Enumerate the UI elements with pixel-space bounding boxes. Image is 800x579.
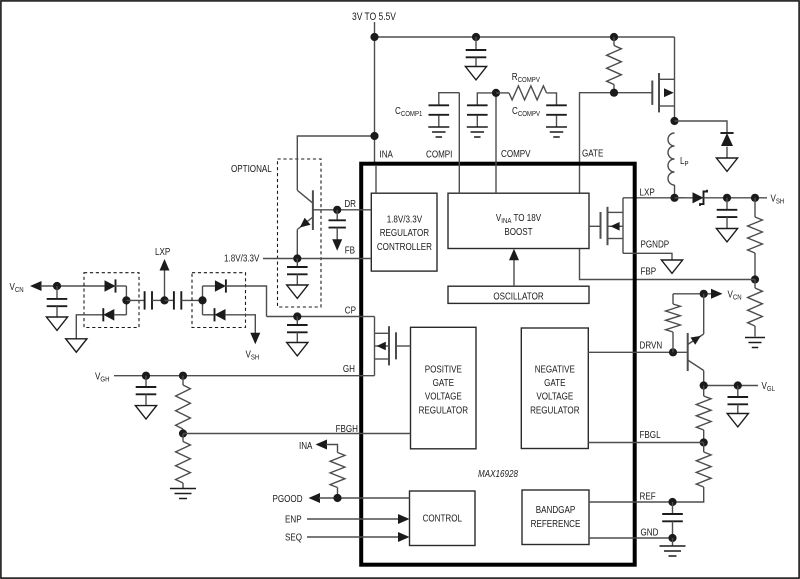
junction rail-INA <box>370 33 378 41</box>
svg-text:REGULATOR: REGULATOR <box>380 227 430 238</box>
wire FBGL line <box>588 442 703 444</box>
ground FB cap <box>287 285 308 298</box>
svg-text:FBGL: FBGL <box>640 429 661 440</box>
ground VSH divider <box>745 337 765 339</box>
wire GH line <box>114 375 375 377</box>
pin DRVN <box>640 339 663 350</box>
wire INA to controller block <box>375 165 377 193</box>
resistor RCOMPV <box>496 92 509 94</box>
svg-text:GATE: GATE <box>433 377 454 388</box>
ground PGNDP <box>661 260 682 273</box>
capacitor REF bypass <box>672 502 674 514</box>
wire FB line <box>263 258 371 260</box>
junction rail-bypass cap <box>472 33 480 41</box>
svg-text:PGNDP: PGNDP <box>641 238 670 249</box>
svg-text:OPTIONAL: OPTIONAL <box>231 163 272 174</box>
pin FBGL <box>640 429 661 440</box>
charge-pump dashed box 1 <box>84 273 139 328</box>
svg-text:MAX16928: MAX16928 <box>478 468 519 479</box>
ground VGH cap <box>135 406 156 419</box>
resistor VGL divider top <box>703 386 705 397</box>
label VCN (right) <box>728 289 742 302</box>
junction VGL-cap <box>734 381 742 389</box>
wire VCN line <box>41 285 105 287</box>
block 1.8V/3.3V regulator controller <box>371 193 437 271</box>
transistor external PMOS <box>651 81 653 105</box>
svg-text:INA: INA <box>380 149 394 160</box>
svg-text:FBGH: FBGH <box>336 423 358 434</box>
wire supply to optional transistor <box>297 136 374 190</box>
wire PGNDP line <box>623 253 672 260</box>
resistor VGH divider bottom <box>182 434 184 442</box>
wire ENP line <box>307 518 400 520</box>
ground CP1 <box>66 339 87 352</box>
junction REF node <box>668 498 676 506</box>
ground VGH divider <box>170 488 196 490</box>
pin DR <box>344 198 356 209</box>
resistor PGOOD pull-up <box>330 453 345 488</box>
capacitor CP reservoir <box>296 317 298 326</box>
capacitor CCOMPV <box>546 104 567 106</box>
junction COMPV <box>492 89 500 97</box>
wire rail to PMOS source/drain <box>674 37 676 121</box>
capacitor flying C1 <box>126 299 144 301</box>
wire FBP line <box>580 249 756 280</box>
transistor internal charge-pump FET <box>363 316 375 318</box>
capacitor VGH <box>145 376 147 387</box>
svg-text:GH: GH <box>343 363 355 374</box>
diode CP2 top <box>203 285 215 287</box>
svg-text:INA: INA <box>299 440 313 451</box>
svg-text:OSCILLATOR: OSCILLATOR <box>493 290 544 301</box>
svg-text:CONTROL: CONTROL <box>423 513 462 524</box>
svg-text:DR: DR <box>344 198 356 209</box>
junction FB-emitter <box>293 254 301 262</box>
ground CCOMPV <box>546 126 567 128</box>
wire SEQ line <box>307 536 400 538</box>
pin GATE <box>582 148 603 159</box>
label LXP (left) <box>155 246 170 257</box>
junction VGL-collector <box>700 381 708 389</box>
resistor VGH divider top <box>182 376 184 385</box>
inductor LP <box>668 133 675 185</box>
diode CP1 bottom <box>76 315 103 339</box>
capacitor VCN reservoir <box>56 286 58 299</box>
pin LXP <box>640 186 655 197</box>
label MAX16928 <box>478 468 519 479</box>
label ENP <box>285 513 302 524</box>
op-amp U1 MAX16928 IC outline <box>361 164 635 565</box>
diode CP1 top <box>105 280 116 292</box>
optional dashed box <box>278 159 322 307</box>
label VCN (left) <box>10 281 24 294</box>
capacitor VSH output <box>726 198 728 210</box>
block VINA TO 18V boost <box>448 193 589 248</box>
resistor VCN base pull <box>672 332 674 352</box>
label RCOMPV <box>512 71 540 84</box>
junction PGOOD-pullup <box>333 494 341 502</box>
block negative gate voltage regulator <box>521 328 588 449</box>
svg-text:REFERENCE: REFERENCE <box>531 518 581 529</box>
node VSH arrow (down) <box>250 333 260 345</box>
pin GH <box>343 363 355 374</box>
transistor Q optional NPN pass <box>297 190 313 203</box>
wire COMPI elbow <box>439 93 460 105</box>
junction VCN-cap <box>53 282 61 290</box>
wire PGOOD line <box>319 497 410 499</box>
node 3V TO 5.5V supply label <box>352 11 396 23</box>
diode clamp (to ground) <box>721 133 733 146</box>
label VSH (right) <box>771 192 785 205</box>
ground COMPV shunt cap <box>467 126 488 128</box>
junction CP1 <box>122 296 130 304</box>
junction LXP node <box>160 296 168 304</box>
ground CCOMP1 <box>428 126 449 128</box>
block CONTROL <box>410 491 476 546</box>
block bandgap reference <box>522 490 589 545</box>
label CCOMPV <box>512 105 540 118</box>
ground clamp diode <box>716 158 737 171</box>
ground CP cap <box>287 343 308 356</box>
pin GND <box>641 526 659 537</box>
pin FBP <box>641 265 657 276</box>
wire INA feed vertical <box>374 22 376 163</box>
junction CP-cap <box>293 312 301 320</box>
label LP <box>680 155 689 168</box>
ground bypass cap <box>465 67 486 80</box>
junction rail-gate resistor <box>610 33 618 41</box>
label INA pull-up <box>299 440 313 451</box>
diode CP2 bottom <box>203 314 215 316</box>
svg-text:FB: FB <box>345 245 355 256</box>
label CCOMP1 <box>395 105 423 118</box>
svg-text:CP: CP <box>345 305 356 316</box>
wire COMPV into boost <box>495 93 497 193</box>
charge-pump dashed box 2 <box>192 273 246 328</box>
pin FB <box>345 245 355 256</box>
junction FBGL node <box>700 438 708 446</box>
junction GND node <box>668 534 676 542</box>
wire DR line <box>313 209 371 211</box>
pin FBGH <box>336 423 358 434</box>
svg-text:1.8V/3.3V: 1.8V/3.3V <box>224 253 260 264</box>
resistor VSH divider bottom <box>754 280 756 289</box>
wire INA pull-up elbow <box>326 445 338 453</box>
junction DR-cap <box>333 206 341 214</box>
svg-text:ENP: ENP <box>285 513 302 524</box>
wire COMPI into boost <box>458 93 460 194</box>
junction GH-divider <box>179 372 187 380</box>
pin PGNDP <box>641 238 670 249</box>
svg-text:VOLTAGE: VOLTAGE <box>536 391 573 402</box>
label VGH <box>95 371 110 384</box>
node to-FB arrow <box>332 239 342 251</box>
node VCN arrow (right) <box>711 289 723 299</box>
wire oscillator to boost (arrow) <box>513 257 515 286</box>
wire supply rail horizontal <box>375 36 675 38</box>
label PGOOD <box>273 493 303 504</box>
junction gate node <box>610 89 618 97</box>
label SEQ <box>285 531 302 542</box>
node VCN arrow <box>30 281 42 291</box>
svg-text:COMPV: COMPV <box>501 148 531 159</box>
resistor VSH divider top <box>754 198 756 217</box>
svg-text:GND: GND <box>641 526 659 537</box>
pin COMPV <box>501 148 531 159</box>
wire VCN line <box>673 293 713 295</box>
svg-text:CONTROLLER: CONTROLLER <box>377 241 432 252</box>
svg-text:BANDGAP: BANDGAP <box>536 504 575 515</box>
label VSH (left) <box>246 349 260 362</box>
pin CP <box>345 305 356 316</box>
capacitor COMPV shunt <box>477 93 496 105</box>
svg-text:POSITIVE: POSITIVE <box>425 363 462 374</box>
block positive gate voltage regulator <box>411 327 477 449</box>
svg-text:NEGATIVE: NEGATIVE <box>535 363 575 374</box>
resistor VGL divider bottom <box>703 443 705 453</box>
svg-text:FBP: FBP <box>641 265 657 276</box>
ground VGL cap <box>727 414 748 427</box>
junction GH-cap <box>142 372 150 380</box>
transistor Q external NPN <box>687 333 689 371</box>
svg-text:VOLTAGE: VOLTAGE <box>425 391 462 402</box>
capacitor DR compensation <box>336 210 338 221</box>
svg-text:REGULATOR: REGULATOR <box>530 405 580 416</box>
junction VSH-cap <box>723 194 731 202</box>
svg-text:SEQ: SEQ <box>285 531 302 542</box>
node PGOOD arrow <box>309 493 321 503</box>
transistor internal boost NMOS <box>589 225 601 227</box>
wire drain to clamp diode <box>675 121 728 133</box>
svg-text:GATE: GATE <box>582 148 603 159</box>
ground GND earth <box>660 545 686 547</box>
junction VSH-divider <box>751 194 759 202</box>
label OPTIONAL <box>231 163 272 174</box>
junction CP2 <box>198 296 206 304</box>
wire CP1 junction vertical <box>125 286 127 315</box>
svg-text:1.8V/3.3V: 1.8V/3.3V <box>387 214 423 225</box>
node INA arrow <box>316 440 328 450</box>
wire CP line <box>267 316 364 318</box>
ground VCN cap <box>46 317 67 330</box>
ground VSH cap <box>716 229 737 242</box>
junction VCN-emitter <box>700 290 708 298</box>
capacitor VGL <box>737 386 739 398</box>
junction FBP node <box>751 275 759 283</box>
svg-text:PGOOD: PGOOD <box>273 493 303 504</box>
wire FBGH line <box>183 433 411 435</box>
svg-text:LXP: LXP <box>640 186 655 197</box>
capacitor FB output <box>296 259 298 268</box>
junction LXP-inductor <box>670 194 678 202</box>
block OSCILLATOR <box>448 286 589 303</box>
wire LXP internal <box>622 198 624 254</box>
pin INA <box>380 149 394 160</box>
svg-text:3V TO 5.5V: 3V TO 5.5V <box>352 11 396 23</box>
resistor gate pull-up <box>613 37 615 46</box>
svg-text:GATE: GATE <box>544 377 565 388</box>
junction DRVN node <box>669 348 677 356</box>
wire REF line <box>589 501 673 503</box>
label 1.8V/3.3V output <box>224 253 260 264</box>
junction supply-optional <box>370 132 378 140</box>
wire VGL line <box>704 385 758 387</box>
junction FBGH node <box>179 429 187 437</box>
pin REF <box>640 490 656 501</box>
pin COMPI <box>426 149 452 160</box>
wire DRVN line <box>588 351 687 353</box>
diode rectifier (Schottky) <box>675 197 693 199</box>
svg-text:COMPI: COMPI <box>426 149 452 160</box>
capacitor input bypass <box>475 37 477 50</box>
wire GND line <box>589 537 673 539</box>
capacitor flying C2 <box>165 299 174 301</box>
wire CP2 junction vertical <box>202 286 204 315</box>
node LXP arrow <box>164 269 166 300</box>
svg-text:REF: REF <box>640 490 656 501</box>
svg-text:BOOST: BOOST <box>504 226 533 237</box>
svg-text:DRVN: DRVN <box>640 339 663 350</box>
label VGL <box>762 380 776 393</box>
junction PMOS drain node <box>670 117 678 125</box>
capacitor CCOMP1 <box>429 104 450 106</box>
svg-text:REGULATOR: REGULATOR <box>419 405 469 416</box>
wire LXP output line <box>623 197 684 199</box>
svg-text:LXP: LXP <box>155 246 170 257</box>
wire GATE pin net <box>580 93 653 193</box>
